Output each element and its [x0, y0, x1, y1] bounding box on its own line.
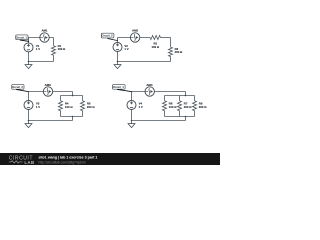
- resistor R8: [193, 101, 197, 111]
- wire: [61, 95, 83, 97]
- wire: [179, 111, 181, 117]
- wire: [194, 111, 196, 117]
- wire: [164, 96, 166, 101]
- resistor R1: [52, 46, 56, 55]
- svg-text:1 V: 1 V: [139, 105, 143, 109]
- wire: [28, 38, 30, 44]
- svg-text:Circuit_2: Circuit_2: [101, 34, 113, 38]
- wire: [165, 116, 195, 118]
- wire: [194, 96, 196, 101]
- node flag Circuit_3: [12, 85, 24, 90]
- wire: [28, 52, 30, 62]
- ground: [28, 121, 30, 124]
- wire: [161, 37, 171, 39]
- wire: [60, 96, 62, 101]
- ground: [28, 62, 30, 65]
- wire: [165, 95, 195, 97]
- node flag Circuit_1: [16, 35, 28, 40]
- wire: [29, 91, 73, 93]
- svg-text:200 Ω: 200 Ω: [87, 105, 95, 109]
- voltage source V4: [127, 101, 136, 110]
- svg-text:Circuit_4: Circuit_4: [113, 85, 125, 89]
- wire: [28, 109, 30, 120]
- wire: [82, 96, 84, 101]
- wire: [185, 117, 187, 121]
- resistor R6: [163, 101, 167, 111]
- wire: [179, 96, 181, 101]
- svg-text:1 V: 1 V: [124, 47, 128, 51]
- svg-text:LAB: LAB: [24, 160, 34, 165]
- junction: [117, 61, 119, 63]
- wire: [132, 91, 186, 93]
- voltage source V2: [113, 43, 122, 52]
- wire: [164, 111, 166, 117]
- ammeter AM1: [40, 33, 49, 42]
- svg-text:200 Ω: 200 Ω: [184, 105, 192, 109]
- svg-text:100 Ω: 100 Ω: [58, 47, 66, 51]
- ammeter AM2: [130, 33, 139, 42]
- wire: [170, 57, 172, 62]
- wire: [72, 92, 74, 96]
- wire: [170, 38, 172, 48]
- junction: [185, 95, 187, 97]
- wire: [53, 55, 55, 61]
- svg-text:1 V: 1 V: [36, 105, 40, 109]
- svg-text:100 Ω: 100 Ω: [65, 105, 73, 109]
- wire: [82, 111, 84, 117]
- wire: [61, 116, 83, 118]
- junction: [72, 116, 74, 118]
- wire: [117, 38, 119, 43]
- resistor R2: [150, 36, 161, 40]
- svg-text:Circuit_3: Circuit_3: [12, 85, 24, 89]
- svg-text:AM4: AM4: [146, 83, 152, 87]
- svg-text:100 Ω: 100 Ω: [151, 45, 159, 49]
- junction: [28, 120, 30, 122]
- node flag Circuit_2: [101, 33, 114, 38]
- ground: [131, 121, 133, 124]
- svg-text:eliot_wang | lab 1 exercise 3: eliot_wang | lab 1 exercise 3 part 1: [39, 156, 98, 160]
- ammeter AM3: [43, 87, 52, 96]
- wire: [185, 92, 187, 96]
- svg-text:AM2: AM2: [132, 29, 138, 33]
- wire: [29, 61, 54, 63]
- wire: [132, 120, 186, 122]
- footer bar: [0, 153, 220, 165]
- wire: [72, 117, 74, 121]
- svg-text:AM3: AM3: [45, 83, 51, 87]
- wire: [118, 61, 171, 63]
- junction: [185, 116, 187, 118]
- node flag Circuit_4: [113, 85, 126, 90]
- wire: [60, 111, 62, 117]
- svg-text:300 Ω: 300 Ω: [199, 105, 207, 109]
- svg-text:AM1: AM1: [41, 29, 47, 33]
- svg-text:200 Ω: 200 Ω: [175, 50, 183, 54]
- resistor R5: [81, 101, 85, 111]
- junction: [131, 120, 133, 122]
- wire: [29, 120, 73, 122]
- svg-text:1 V: 1 V: [36, 47, 40, 51]
- junction: [72, 95, 74, 97]
- ground: [117, 62, 119, 65]
- wire: [53, 38, 55, 46]
- wire: [131, 92, 133, 101]
- resistor R3: [169, 47, 173, 56]
- resistor R7: [178, 101, 182, 111]
- resistor R4: [59, 101, 63, 111]
- wire: [28, 92, 30, 101]
- junction: [28, 61, 30, 63]
- voltage source V3: [24, 101, 33, 110]
- wire: [117, 51, 119, 61]
- svg-text:Circuit_1: Circuit_1: [16, 35, 28, 39]
- wire: [131, 109, 133, 120]
- wire: [118, 37, 151, 39]
- svg-text:100 Ω: 100 Ω: [169, 105, 177, 109]
- voltage source V1: [24, 43, 33, 52]
- svg-text:http://circuitlab.com/c6fg74p2: http://circuitlab.com/c6fg74p2xh/: [39, 160, 86, 164]
- wire: [28, 37, 54, 39]
- ammeter AM4: [145, 87, 154, 96]
